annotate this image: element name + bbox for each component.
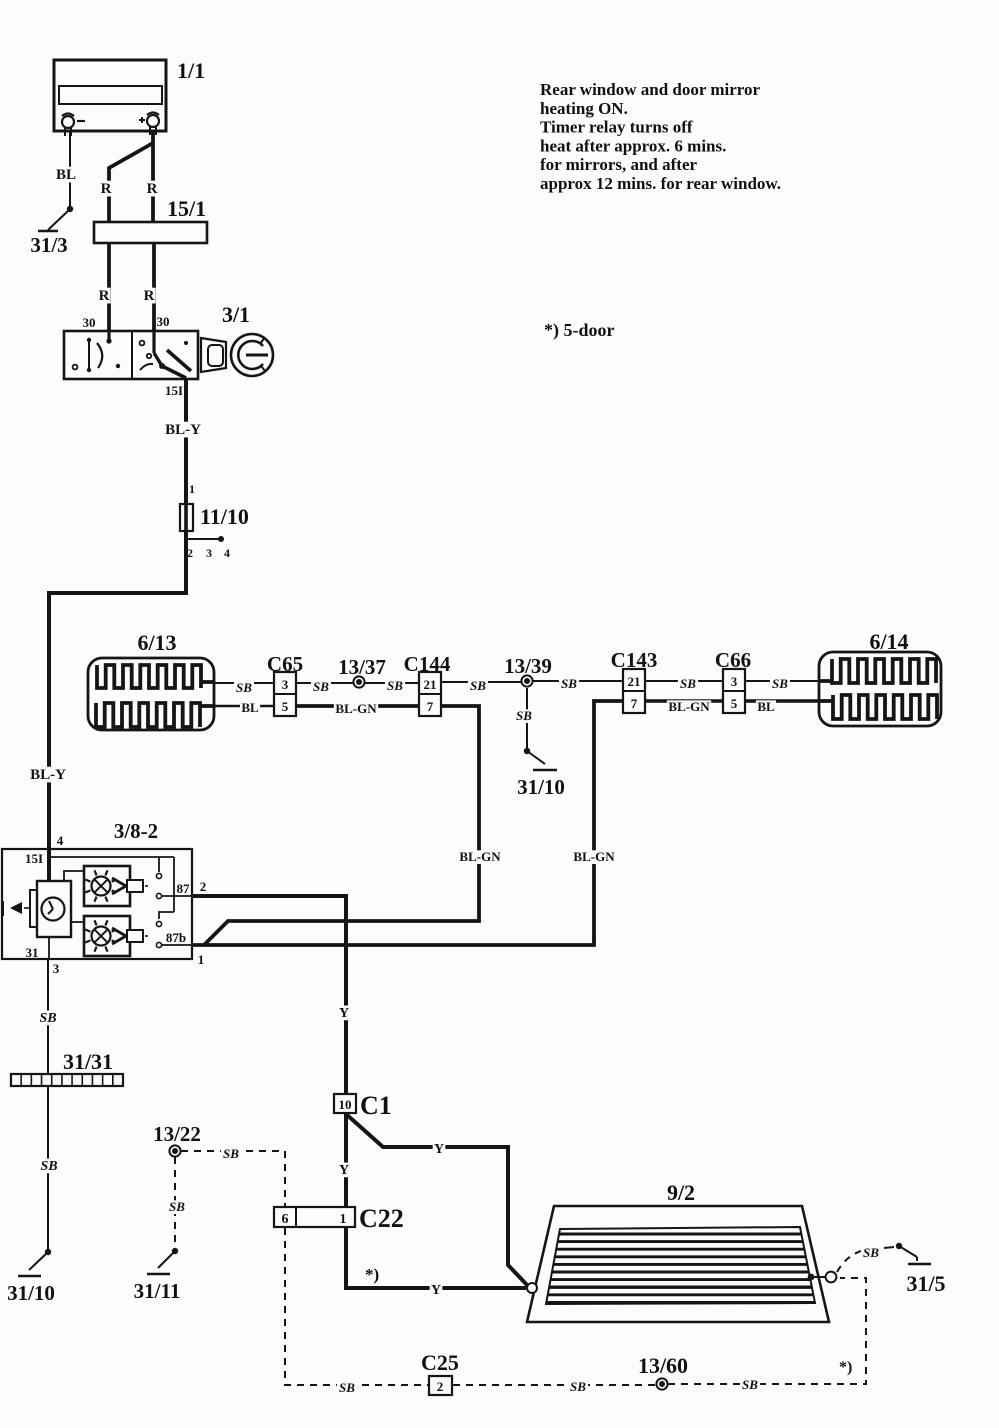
rear window heater 9/2 <box>527 1180 836 1322</box>
svg-text:SB: SB <box>516 708 532 723</box>
svg-text:4: 4 <box>57 833 64 848</box>
svg-text:15/1: 15/1 <box>167 196 206 221</box>
svg-text:C65: C65 <box>267 652 303 676</box>
svg-text:2: 2 <box>437 1379 444 1394</box>
wire BL mirror heater 6/13 to connector C65 pin 5 <box>211 705 275 708</box>
labels R lower <box>97 288 155 304</box>
note *) 5-door <box>544 320 615 341</box>
ground 31/10 below splice 13/39 <box>517 748 565 799</box>
svg-text:6/13: 6/13 <box>137 630 176 655</box>
mirror heater 6/13 <box>88 630 214 730</box>
splice 13/37 <box>338 655 386 688</box>
svg-text:SB: SB <box>313 679 329 694</box>
label BL-GN right vertical <box>572 849 616 864</box>
label Y relay to C1 <box>338 1006 351 1021</box>
svg-text:BL-GN: BL-GN <box>668 699 710 714</box>
svg-text:13/37: 13/37 <box>338 655 386 679</box>
battery 1/1 <box>54 58 205 136</box>
svg-text:BL-GN: BL-GN <box>459 849 501 864</box>
wire BL connector C66 pin 5 to mirror heater 6/14 <box>744 699 821 702</box>
svg-text:SB: SB <box>339 1380 355 1395</box>
svg-text:SB: SB <box>570 1379 586 1394</box>
label Y C22 to rear window <box>430 1283 443 1298</box>
svg-text:C22: C22 <box>359 1204 404 1233</box>
svg-text:SB: SB <box>470 678 486 693</box>
ground 31/11 <box>134 1248 181 1303</box>
connector C143 <box>611 648 658 713</box>
note text <box>540 80 781 193</box>
wire SB splice 13/39 to ground 31/10 <box>526 688 528 750</box>
label BL C66-6/14 <box>756 699 776 714</box>
label SB C144-13/39 <box>468 678 488 693</box>
connector C66 <box>715 648 751 713</box>
splice 13/22 <box>153 1122 201 1157</box>
svg-text:heat after approx. 6 mins.: heat after approx. 6 mins. <box>540 136 726 155</box>
ground 31/10 bottom left <box>7 1249 55 1305</box>
svg-text:C66: C66 <box>715 648 751 672</box>
svg-text:Timer relay turns off: Timer relay turns off <box>540 118 693 137</box>
label SB C22-C25 <box>337 1380 357 1395</box>
svg-text:SB: SB <box>169 1199 185 1214</box>
svg-text:BL: BL <box>757 699 775 714</box>
svg-text:6: 6 <box>282 1212 289 1227</box>
label Y C1 to C22 <box>338 1163 351 1178</box>
connector C25 <box>421 1350 459 1395</box>
svg-text:15I: 15I <box>25 851 43 866</box>
svg-text:*): *) <box>839 1359 852 1376</box>
label SB C25-13/60 <box>568 1379 588 1394</box>
connector strip 31/31 <box>11 1049 123 1086</box>
connector C1 <box>334 1091 392 1120</box>
label *) at C22 wire <box>365 1265 379 1284</box>
svg-text:3: 3 <box>206 546 212 560</box>
wire Y connector C1 branch to rear window heater left terminal <box>346 1114 528 1286</box>
wire SB connector C144 to splice 13/39 <box>440 681 522 683</box>
connector C22 <box>274 1204 404 1233</box>
svg-text:11/10: 11/10 <box>200 504 249 529</box>
labels R upper <box>99 181 158 197</box>
svg-text:1: 1 <box>340 1212 347 1227</box>
svg-text:C143: C143 <box>611 648 658 672</box>
svg-text:3/1: 3/1 <box>222 302 250 327</box>
svg-text:9/2: 9/2 <box>667 1180 695 1205</box>
svg-text:5: 5 <box>731 696 738 711</box>
label SB at 31/5 <box>861 1245 881 1260</box>
wire SB rear window heater right terminal to ground 31/5 (dashed) <box>837 1247 894 1272</box>
label BL 6/13-C65 <box>240 700 260 715</box>
svg-text:R: R <box>144 288 155 304</box>
svg-text:3: 3 <box>282 677 289 692</box>
svg-text:SB: SB <box>772 676 788 691</box>
wire SB connector strip 31/31 to ground 31/10 <box>47 1085 49 1252</box>
svg-text:SB: SB <box>223 1146 239 1161</box>
svg-text:21: 21 <box>628 674 641 689</box>
svg-text:5: 5 <box>282 699 289 714</box>
wire BL-GN connector C144 pin 7 down to relay junction <box>204 706 479 945</box>
label SB 6/13-C65 <box>234 680 254 695</box>
svg-text:1/1: 1/1 <box>177 58 205 83</box>
svg-text:Y: Y <box>339 1006 349 1021</box>
label Y C1 to rear window <box>433 1142 446 1157</box>
svg-text:for mirrors, and after: for mirrors, and after <box>540 155 698 174</box>
wire R battery positive diagonal branch to fuse 15/1 <box>109 143 153 222</box>
label SB C65-13/37 <box>311 679 331 694</box>
wire SB splice 13/22 to connector C22 pin 6 (dashed) <box>181 1151 285 1206</box>
label SB 13/60 right <box>740 1377 760 1392</box>
relay coil symbol upper (rear window) <box>84 866 151 906</box>
svg-text:13/60: 13/60 <box>638 1353 688 1378</box>
wire SB connector C25 to splice 13/60 (dashed) <box>453 1384 656 1386</box>
ground 31/3 <box>30 206 73 257</box>
svg-text:Rear window and door mirror: Rear window and door mirror <box>540 80 761 99</box>
svg-text:SB: SB <box>387 678 403 693</box>
wire SB relay terminal 31 to connector strip 31/31 <box>47 959 49 1075</box>
wire BL battery negative to ground 31/3 <box>69 132 71 209</box>
svg-text:31/5: 31/5 <box>906 1271 945 1296</box>
wire SB connector C143 to connector C66 pin 3 <box>644 680 725 682</box>
svg-text:31/10: 31/10 <box>7 1281 55 1305</box>
wire Y connector C1 to connector C22 pin 1 <box>344 1112 348 1208</box>
svg-text:21: 21 <box>424 677 437 692</box>
label SB relay to 31/31 <box>37 1011 58 1026</box>
relay coil symbol lower (mirrors) <box>84 916 151 956</box>
svg-text:7: 7 <box>631 696 638 711</box>
svg-text:SB: SB <box>236 680 252 695</box>
label BL-GN C143-C66 <box>667 699 711 714</box>
svg-text:R: R <box>101 181 112 197</box>
svg-text:Y: Y <box>434 1142 444 1157</box>
label SB 13/22 right <box>221 1146 241 1161</box>
svg-text:13/22: 13/22 <box>153 1122 201 1146</box>
svg-text:SB: SB <box>39 1011 56 1026</box>
svg-text:R: R <box>99 288 110 304</box>
svg-text:SB: SB <box>561 676 577 691</box>
svg-text:31/3: 31/3 <box>30 233 67 257</box>
svg-text:BL: BL <box>56 167 76 183</box>
svg-text:6/14: 6/14 <box>869 629 908 654</box>
svg-text:BL-GN: BL-GN <box>573 849 615 864</box>
wire SB splice 13/60 to rear window heater right terminal (dashed) <box>668 1278 866 1384</box>
label BL-Y lower <box>27 767 68 783</box>
svg-text:31: 31 <box>26 945 39 960</box>
svg-text:1: 1 <box>189 482 195 496</box>
svg-text:2: 2 <box>187 546 193 560</box>
svg-text:Y: Y <box>431 1283 441 1298</box>
label BL-Y upper <box>162 422 203 438</box>
svg-text:BL-Y: BL-Y <box>30 767 66 783</box>
fuse box 15/1 <box>94 196 207 243</box>
label SB below 13/39 <box>514 708 534 723</box>
svg-text:*): *) <box>365 1265 379 1284</box>
wire BL-GN connector C143 pin 7 to connector C66 pin 5 <box>644 699 725 702</box>
wire BL-Y ignition switch 15I through connector 11/10 down to relay 3/8-2 <box>49 376 186 880</box>
splice 13/60 <box>638 1353 688 1390</box>
ground 31/5 <box>896 1243 946 1296</box>
label SB C143-C66 <box>678 676 698 691</box>
wire SB splice 13/22 down to ground 31/11 (dashed) <box>174 1157 176 1250</box>
connector C65 <box>267 652 303 716</box>
svg-text:C1: C1 <box>360 1091 392 1120</box>
label SB 13/39-C143 <box>559 676 579 691</box>
svg-text:2: 2 <box>200 879 207 894</box>
svg-text:3/8-2: 3/8-2 <box>114 819 158 843</box>
svg-text:SB: SB <box>742 1377 758 1392</box>
connector 11/10 <box>180 482 249 560</box>
wire SB connector C22 pin 6 to connector C25 (dashed) <box>285 1228 428 1385</box>
wire SB connector C66 to mirror heater 6/14 <box>744 680 821 682</box>
svg-text:BL-GN: BL-GN <box>335 701 377 716</box>
svg-text:C25: C25 <box>421 1350 459 1375</box>
svg-text:15I: 15I <box>165 383 183 398</box>
wire SB connector C65 to splice 13/37 to connector C144 pin 21 <box>296 682 420 684</box>
splice 13/39 <box>504 654 552 687</box>
svg-text:30: 30 <box>157 314 170 329</box>
svg-text:31/31: 31/31 <box>63 1049 113 1074</box>
svg-text:7: 7 <box>427 699 434 714</box>
wire BL-GN relay terminal 87b to connector C143 pin 7 <box>192 701 624 945</box>
label SB C66-6/14 <box>770 676 790 691</box>
ignition switch 3/1 <box>64 302 273 398</box>
svg-text:3: 3 <box>731 674 738 689</box>
connector C144 <box>404 652 451 716</box>
svg-text:1: 1 <box>198 952 205 967</box>
wire R battery positive vertical to fuse 15/1 <box>151 131 155 222</box>
svg-text:SB: SB <box>863 1245 879 1260</box>
wire stub pins 2 3 4 of connector 11/10 <box>187 536 224 542</box>
wire R fuse to ignition switch terminal 30 left <box>107 242 111 334</box>
svg-text:13/39: 13/39 <box>504 654 552 678</box>
mirror heater 6/14 <box>819 629 941 726</box>
svg-text:Y: Y <box>339 1163 349 1178</box>
label SB 13/37-C144 <box>385 678 405 693</box>
label SB 31/31 to ground <box>38 1159 59 1174</box>
svg-text:*) 5-door: *) 5-door <box>544 320 615 341</box>
label SB 13/22 down <box>167 1199 187 1214</box>
wire Y relay terminal 87 down to connector C1 <box>192 896 346 1096</box>
svg-text:31/11: 31/11 <box>134 1279 181 1303</box>
label *) near 31/5 <box>839 1359 852 1376</box>
svg-text:SB: SB <box>680 676 696 691</box>
wire R fuse to ignition switch terminal 30 right <box>152 242 156 334</box>
svg-text:BL-Y: BL-Y <box>165 422 201 438</box>
label BL-GN C65-C144 <box>334 701 378 716</box>
svg-text:10: 10 <box>339 1097 352 1112</box>
svg-text:30: 30 <box>83 315 96 330</box>
label BL-GN left vertical <box>458 849 502 864</box>
svg-text:31/10: 31/10 <box>517 775 565 799</box>
wire Y connector C22 pin 1 to rear window heater left terminal (5-door) <box>346 1227 526 1288</box>
wire SB splice 13/39 to connector C143 pin 21 <box>533 680 624 682</box>
svg-text:87b: 87b <box>166 930 186 945</box>
svg-text:approx 12 mins. for rear windo: approx 12 mins. for rear window. <box>540 174 781 193</box>
svg-text:3: 3 <box>53 961 60 976</box>
wire SB mirror heater 6/13 to connector C65 pin 3 <box>211 682 275 684</box>
svg-text:4: 4 <box>224 546 230 560</box>
wire BL-GN connector C65 pin 5 to connector C144 pin 7 <box>296 704 420 708</box>
svg-text:R: R <box>147 181 158 197</box>
relay 3/8-2 <box>2 819 206 976</box>
svg-text:SB: SB <box>40 1159 57 1174</box>
svg-text:C144: C144 <box>404 652 451 676</box>
svg-text:BL: BL <box>241 700 259 715</box>
svg-text:heating ON.: heating ON. <box>540 99 628 118</box>
label BL <box>55 167 78 183</box>
svg-text:87: 87 <box>177 881 191 896</box>
